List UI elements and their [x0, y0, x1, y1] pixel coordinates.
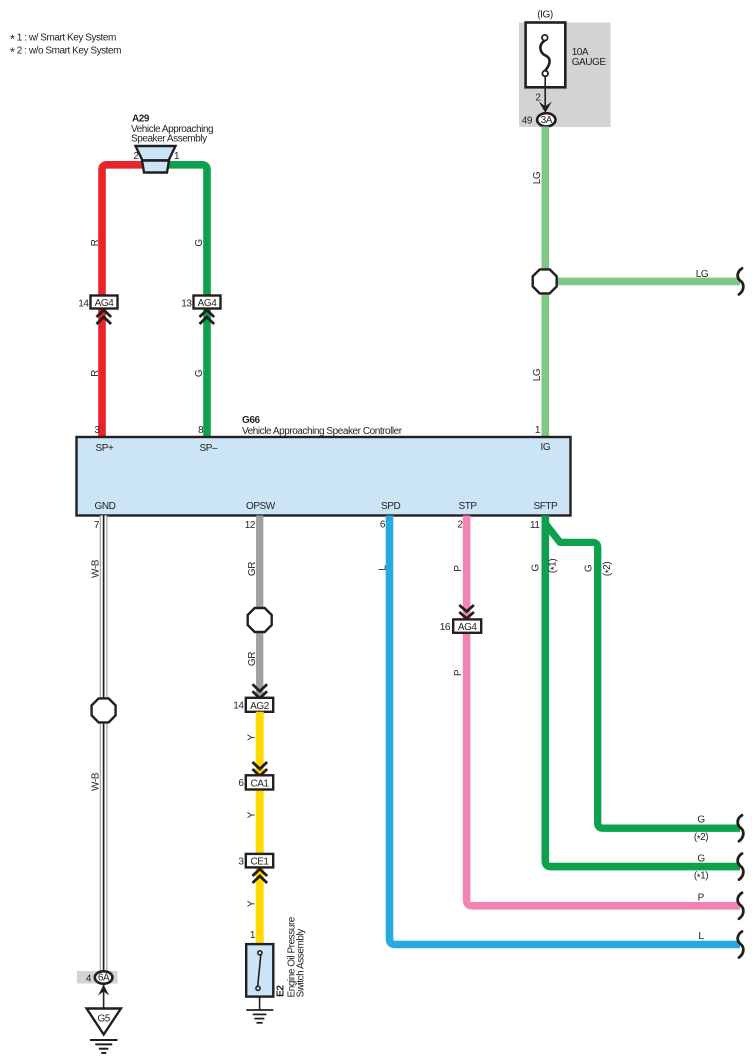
svg-text:3: 3 — [94, 425, 100, 436]
wire G SFTP branch *2 — [546, 525, 740, 829]
svg-text:G5: G5 — [97, 1014, 110, 1025]
svg-text:12: 12 — [245, 520, 256, 531]
connector 14 AG4 — [78, 296, 117, 325]
svg-text:11: 11 — [530, 520, 540, 531]
svg-text:SP+: SP+ — [96, 443, 114, 454]
wire G SFTP main *1 — [545, 516, 740, 867]
ground at E2 — [246, 997, 273, 1023]
wire G from A29 pin1 to G66 pin8 — [155, 165, 207, 437]
svg-text:14: 14 — [233, 701, 244, 712]
svg-text:E2: E2 — [276, 985, 287, 997]
connector 16 AG4 — [440, 605, 481, 633]
svg-text:G: G — [697, 815, 705, 826]
svg-text:LG: LG — [532, 368, 543, 381]
svg-text:SPD: SPD — [381, 501, 400, 512]
svg-text:(IG): (IG) — [537, 10, 553, 21]
squiggle G *2 — [738, 815, 744, 841]
svg-text:(*1): (*1) — [694, 871, 708, 884]
junction octagon GR — [248, 608, 272, 632]
svg-text:49: 49 — [522, 116, 533, 127]
svg-text:G66: G66 — [242, 415, 260, 426]
speaker A29 — [131, 114, 213, 173]
svg-text:3A: 3A — [541, 115, 553, 126]
svg-text:W-B: W-B — [90, 772, 101, 791]
svg-text:AG4: AG4 — [458, 622, 478, 633]
svg-text:* 1 : w/ Smart Key System: * 1 : w/ Smart Key System — [10, 33, 116, 47]
svg-text:2: 2 — [535, 93, 541, 104]
wire R from A29 pin2 to G66 pin3 — [102, 165, 160, 437]
connector 6 CA1 — [238, 762, 273, 790]
svg-text:1: 1 — [535, 425, 541, 436]
wire LG from 3A to G66 pin1 — [541, 127, 549, 438]
wire GR OPSW — [256, 516, 263, 699]
svg-text:16: 16 — [440, 622, 451, 633]
connector 13 AG4 — [181, 296, 220, 325]
wire LG horizontal branch — [545, 278, 740, 286]
arrow up into 6A — [98, 985, 109, 996]
svg-text:6: 6 — [238, 778, 244, 789]
svg-text:P: P — [453, 565, 464, 572]
svg-text:6: 6 — [380, 520, 386, 531]
wire Y OPSW lower — [256, 712, 264, 944]
oil pressure switch E2 — [246, 944, 273, 997]
svg-text:L: L — [378, 565, 389, 571]
junction octagon W-B — [92, 698, 116, 722]
svg-text:G: G — [194, 239, 205, 247]
svg-text:2: 2 — [133, 151, 139, 162]
svg-text:7: 7 — [94, 520, 100, 531]
svg-text:L: L — [698, 931, 704, 942]
svg-text:1: 1 — [250, 930, 256, 941]
svg-text:8: 8 — [198, 425, 204, 436]
fuse 10A GAUGE — [519, 10, 611, 128]
svg-text:Y: Y — [247, 734, 258, 741]
svg-text:GAUGE: GAUGE — [572, 57, 607, 68]
svg-text:AG2: AG2 — [250, 701, 270, 712]
svg-text:6A: 6A — [98, 973, 110, 984]
svg-text:G: G — [194, 369, 205, 377]
svg-text:GR: GR — [247, 562, 258, 576]
svg-text:Vehicle Approaching Speaker Co: Vehicle Approaching Speaker Controller — [242, 426, 403, 437]
svg-text:SFTP: SFTP — [534, 501, 559, 512]
svg-text:SP–: SP– — [200, 443, 218, 454]
svg-text:1: 1 — [174, 151, 180, 162]
svg-text:CA1: CA1 — [250, 778, 269, 789]
arrow down into 3A — [539, 102, 552, 113]
svg-text:IG: IG — [541, 442, 551, 453]
svg-text:Y: Y — [247, 900, 258, 907]
svg-text:AG4: AG4 — [95, 298, 115, 309]
svg-text:STP: STP — [459, 501, 478, 512]
svg-text:W-B: W-B — [90, 559, 101, 578]
note legend — [10, 33, 121, 60]
svg-text:P: P — [698, 893, 705, 904]
svg-text:G: G — [531, 564, 542, 572]
svg-text:CE1: CE1 — [250, 856, 269, 867]
svg-text:GR: GR — [247, 652, 258, 666]
svg-text:LG: LG — [696, 269, 709, 280]
squiggle LG continuation — [738, 268, 744, 294]
svg-text:2: 2 — [457, 520, 463, 531]
squiggle P — [738, 893, 744, 919]
svg-text:GND: GND — [95, 501, 116, 512]
svg-text:OPSW: OPSW — [246, 501, 276, 512]
connector 14 AG2 — [233, 684, 273, 712]
svg-text:R: R — [90, 370, 101, 377]
wire W-B GND — [100, 516, 108, 972]
svg-text:G: G — [584, 564, 595, 572]
wire P STP — [467, 516, 740, 906]
svg-text:Y: Y — [247, 811, 258, 818]
svg-text:* 2 : w/o Smart Key System: * 2 : w/o Smart Key System — [10, 46, 121, 60]
svg-text:(*2): (*2) — [602, 562, 615, 576]
svg-text:G: G — [697, 854, 705, 865]
wire to ground G5 — [103, 983, 105, 1009]
svg-text:3: 3 — [238, 857, 244, 868]
svg-text:4: 4 — [86, 974, 92, 985]
svg-text:(*1): (*1) — [548, 559, 561, 573]
svg-text:LG: LG — [532, 171, 543, 184]
svg-text:14: 14 — [78, 299, 89, 310]
svg-text:AG4: AG4 — [198, 298, 218, 309]
svg-text:Speaker Assembly: Speaker Assembly — [131, 134, 207, 145]
svg-text:P: P — [453, 669, 464, 676]
svg-text:13: 13 — [181, 299, 192, 310]
connector 3 CE1 — [238, 854, 273, 883]
svg-text:R: R — [90, 239, 101, 246]
svg-text:(*2): (*2) — [694, 832, 708, 845]
squiggle G *1 — [738, 854, 744, 880]
G66 controller box — [77, 415, 571, 516]
wire fuse to 3A — [544, 76, 546, 106]
squiggle L — [738, 932, 744, 958]
svg-text:A29: A29 — [132, 114, 150, 125]
junction octagon LG — [533, 269, 557, 293]
wire L SPD — [390, 516, 741, 945]
ground G5 — [87, 1009, 121, 1054]
connector 4 6A — [77, 971, 118, 985]
svg-text:Switch Assembly: Switch Assembly — [296, 929, 307, 998]
